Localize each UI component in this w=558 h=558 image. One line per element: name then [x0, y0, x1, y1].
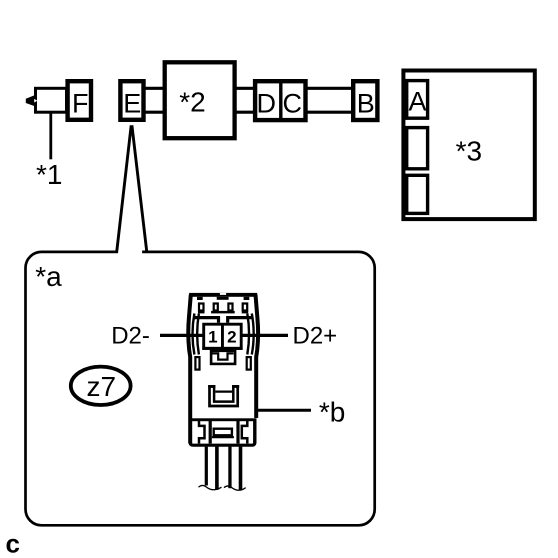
svg-text:*b: *b	[319, 396, 345, 427]
body divider bar	[189, 418, 257, 421]
wire pipe C to B	[305, 88, 354, 112]
connector box F	[68, 81, 91, 120]
label *1	[36, 159, 62, 190]
connector housing top cap	[189, 293, 257, 300]
connector boxes D and C	[255, 81, 305, 120]
svg-text:B: B	[357, 89, 375, 119]
wire pipe *2 to D	[233, 88, 256, 112]
svg-text:C: C	[283, 89, 303, 119]
svg-text:1: 1	[208, 328, 217, 347]
svg-text:c: c	[6, 529, 20, 558]
right shoulder ledge	[228, 318, 253, 323]
svg-text:D2+: D2+	[293, 323, 338, 350]
svg-text:2: 2	[227, 328, 236, 347]
terminal cavity boxes 1 and 2	[202, 324, 242, 348]
wire 4	[239, 447, 243, 490]
terminal hole 1	[198, 304, 205, 314]
empty connector slot 3 inside *3	[407, 175, 428, 213]
component box *2	[165, 62, 235, 138]
wire break squiggle left pair	[199, 485, 222, 489]
detail view rounded frame *a	[26, 249, 375, 525]
terminal hole 3	[228, 304, 232, 311]
empty connector slot 2 inside *3	[407, 128, 428, 169]
label *b with leader	[257, 396, 346, 427]
svg-text:E: E	[123, 89, 141, 119]
connector box B	[353, 81, 377, 120]
svg-text:D2-: D2-	[111, 323, 150, 350]
connector box A inside *3	[407, 81, 428, 119]
svg-text:*2: *2	[179, 87, 205, 118]
harness arrow symbol	[26, 88, 67, 112]
wire break squiggle right pair	[224, 486, 246, 490]
right side pocket	[247, 357, 251, 370]
pin number 1	[208, 328, 217, 347]
ellipse callout z7	[71, 367, 131, 405]
retainer panel edges	[210, 421, 238, 444]
svg-text:*a: *a	[35, 261, 62, 292]
figure code c	[6, 529, 20, 558]
connector box E	[120, 81, 143, 120]
callout V pointer from box E	[117, 125, 147, 253]
terminal hole 2	[214, 304, 218, 311]
connector housing left outer edge	[188, 295, 191, 444]
bar under holes 2-3	[211, 311, 235, 314]
wire 3	[228, 447, 231, 489]
left flank arc pair	[193, 314, 199, 355]
label D2+ with leader	[243, 323, 338, 350]
svg-text:*3: *3	[456, 135, 482, 166]
pin number 2	[227, 328, 236, 347]
wire pipe E to *2	[144, 88, 166, 112]
wire 1	[205, 447, 208, 486]
left retainer step bracket	[199, 421, 205, 444]
right retainer step bracket	[242, 421, 248, 444]
left shoulder ledge	[194, 318, 219, 323]
connector housing bottom edge	[190, 441, 255, 445]
leader line to *1	[49, 113, 52, 160]
svg-text:F: F	[72, 89, 89, 119]
svg-text:z7: z7	[87, 371, 117, 402]
wire 2	[215, 447, 219, 490]
svg-text:D: D	[257, 89, 277, 119]
retainer center window	[212, 429, 234, 438]
terminal hole 4	[242, 304, 249, 314]
connector housing right outer edge	[255, 295, 258, 444]
svg-text:A: A	[408, 87, 426, 117]
component box *3	[403, 71, 534, 220]
U-shaped clip	[208, 385, 239, 406]
latch block with notch	[211, 351, 235, 364]
right flank arc pair	[247, 314, 253, 355]
svg-text:*1: *1	[36, 159, 62, 190]
label *a	[35, 261, 62, 292]
label D2- with leader	[111, 323, 203, 350]
left side pocket	[195, 357, 199, 370]
